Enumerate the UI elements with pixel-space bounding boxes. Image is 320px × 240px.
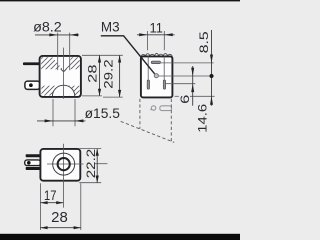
svg-text:29.2: 29.2	[101, 59, 115, 89]
svg-text:22.2: 22.2	[84, 149, 98, 179]
svg-text:ø15.5: ø15.5	[85, 106, 121, 121]
svg-text:8.5: 8.5	[197, 31, 211, 53]
svg-text:28: 28	[51, 210, 68, 226]
svg-text:14.6: 14.6	[196, 104, 210, 133]
svg-text:ø8.2: ø8.2	[33, 19, 62, 34]
svg-text:11: 11	[150, 21, 163, 36]
svg-text:28: 28	[85, 64, 99, 82]
svg-text:6: 6	[178, 95, 192, 104]
svg-text:M3: M3	[101, 20, 120, 35]
svg-text:17: 17	[44, 188, 56, 203]
